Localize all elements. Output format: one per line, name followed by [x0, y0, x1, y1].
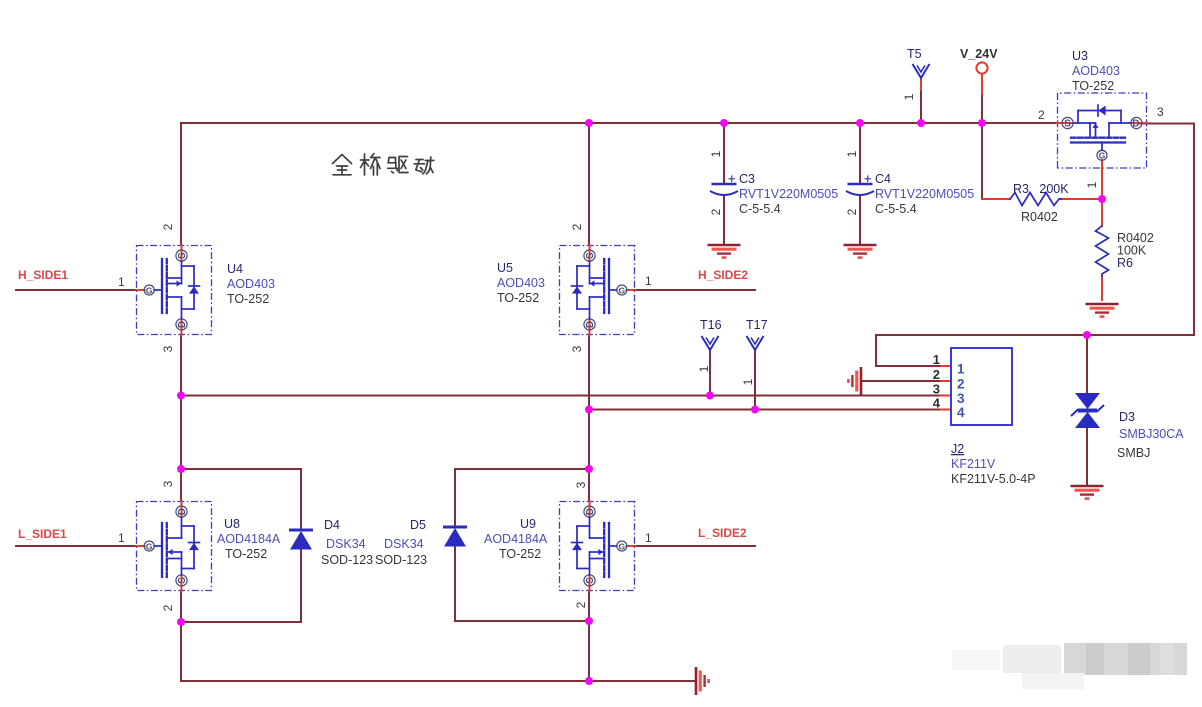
testpoint T17 — [747, 336, 764, 350]
svg-text:D3: D3 — [1119, 410, 1135, 424]
ground bottom rail — [695, 667, 698, 695]
svg-text:G: G — [618, 542, 625, 552]
svg-text:3: 3 — [1157, 105, 1164, 119]
wire V_24V feed down to R3 — [981, 74, 983, 96]
capacitor C3 — [712, 183, 737, 185]
wire D3 stubs — [1086, 335, 1088, 486]
svg-text:2: 2 — [933, 367, 940, 382]
wire net H-bridge left midpoint to J2 pin 3 — [181, 395, 951, 397]
svg-text:2: 2 — [574, 601, 588, 608]
wire left column x=181 — [180, 123, 182, 681]
svg-text:1: 1 — [957, 362, 965, 377]
svg-text:D: D — [1132, 119, 1139, 130]
svg-text:D: D — [585, 508, 596, 515]
wire T16 stub — [709, 350, 711, 396]
svg-text:D: D — [177, 321, 188, 328]
svg-text:AOD403: AOD403 — [497, 276, 545, 290]
svg-text:U8: U8 — [224, 517, 240, 531]
junction U5 drain at top bus — [585, 119, 593, 127]
svg-text:D4: D4 — [324, 518, 340, 532]
svg-text:+: + — [864, 172, 871, 186]
junction C4 at top bus — [856, 119, 864, 127]
svg-text:1: 1 — [845, 150, 859, 157]
junction D5 bottom — [585, 617, 593, 625]
transistor U3 — [1057, 93, 1147, 169]
svg-text:1: 1 — [1085, 181, 1099, 188]
svg-text:1: 1 — [645, 531, 652, 545]
junction T17 on net — [751, 406, 759, 414]
wire U3 gate stub — [1101, 169, 1103, 200]
svg-text:L_SIDE1: L_SIDE1 — [18, 527, 67, 541]
svg-text:S: S — [585, 252, 596, 259]
resistor R3 — [1010, 193, 1061, 206]
wire port H_SIDE1 — [16, 289, 136, 291]
svg-text:AOD403: AOD403 — [1072, 64, 1120, 78]
svg-text:3: 3 — [161, 480, 175, 487]
transistor U9 — [560, 501, 636, 591]
wire net H-bridge right midpoint to J2 pin 4 — [589, 409, 951, 411]
svg-text:C-5-5.4: C-5-5.4 — [739, 202, 781, 216]
svg-text:D: D — [177, 508, 188, 515]
svg-text:SOD-123: SOD-123 — [375, 553, 427, 567]
ground C4 — [844, 244, 877, 247]
ground D3 — [1071, 485, 1104, 488]
svg-text:S: S — [585, 577, 596, 584]
svg-text:AOD4184A: AOD4184A — [217, 532, 281, 546]
svg-text:R0402: R0402 — [1021, 210, 1058, 224]
testpoint T5 — [913, 64, 930, 78]
svg-text:C3: C3 — [739, 172, 755, 186]
svg-text:1: 1 — [933, 352, 940, 367]
svg-text:J2: J2 — [951, 442, 964, 456]
wire C3 stubs — [723, 123, 725, 245]
svg-text:D5: D5 — [410, 518, 426, 532]
junction D3 tap — [1083, 331, 1091, 339]
transistor U8 — [136, 501, 212, 591]
wire R6 stubs — [1101, 199, 1103, 300]
svg-text:SMBJ: SMBJ — [1117, 446, 1150, 460]
wire R3 to U3 gate node — [1061, 198, 1102, 200]
svg-text:3: 3 — [957, 391, 965, 406]
svg-text:4: 4 — [933, 396, 941, 411]
junction D4 bottom — [177, 618, 185, 626]
junction C3 at top bus — [720, 119, 728, 127]
svg-text:G: G — [618, 286, 625, 296]
svg-text:G: G — [1099, 150, 1106, 160]
svg-text:U5: U5 — [497, 261, 513, 275]
svg-text:TO-252: TO-252 — [499, 547, 541, 561]
wire port H_SIDE2 — [635, 289, 755, 291]
wire T5 stub — [920, 78, 922, 92]
svg-text:1: 1 — [709, 150, 723, 157]
svg-text:2: 2 — [570, 223, 584, 230]
wire mid column x=589 — [588, 123, 590, 681]
svg-text:L_SIDE2: L_SIDE2 — [698, 526, 747, 540]
junction left midpoint net — [177, 392, 185, 400]
svg-text:RVT1V220M0505: RVT1V220M0505 — [875, 187, 974, 201]
svg-text:1: 1 — [645, 274, 652, 288]
ground R6 — [1086, 303, 1119, 306]
svg-text:G: G — [146, 542, 153, 552]
wire port L_SIDE1 — [16, 545, 136, 547]
diode D3 TVS — [1075, 393, 1100, 409]
svg-text:RVT1V220M0505: RVT1V220M0505 — [739, 187, 838, 201]
svg-text:TO-252: TO-252 — [225, 547, 267, 561]
capacitor C4 — [848, 183, 873, 185]
junction R3 R6 U3 gate — [1098, 195, 1106, 203]
svg-text:4: 4 — [957, 405, 965, 420]
junction D5 top — [585, 465, 593, 473]
svg-text:2: 2 — [1038, 108, 1045, 122]
wire U3 drain to right edge and down to J2 rail — [876, 124, 1194, 367]
svg-text:TO-252: TO-252 — [227, 292, 269, 306]
diode D5 — [443, 526, 467, 529]
watermark blur — [952, 643, 1187, 689]
svg-text:2: 2 — [161, 223, 175, 230]
wire C4 stubs — [859, 123, 861, 245]
svg-text:1: 1 — [118, 531, 125, 545]
svg-text:3: 3 — [933, 382, 940, 397]
junction T5 at top bus — [917, 119, 925, 127]
svg-text:2: 2 — [957, 377, 965, 392]
svg-text:KF211V-5.0-4P: KF211V-5.0-4P — [951, 472, 1036, 486]
svg-text:C-5-5.4: C-5-5.4 — [875, 202, 917, 216]
diode D4 — [289, 529, 313, 532]
wire D4 parallel branch — [181, 469, 301, 530]
svg-text:V_24V: V_24V — [960, 47, 998, 61]
svg-text:G: G — [146, 286, 153, 296]
svg-text:SOD-123: SOD-123 — [321, 553, 373, 567]
svg-text:S: S — [1064, 119, 1071, 130]
svg-text:2: 2 — [845, 208, 859, 215]
svg-text:AOD4184A: AOD4184A — [484, 532, 548, 546]
ground C3 — [708, 244, 741, 247]
svg-text:1: 1 — [697, 365, 711, 372]
connector J2 — [951, 348, 1012, 425]
svg-text:U3: U3 — [1072, 49, 1088, 63]
wire J2 red pin stubs — [941, 366, 951, 410]
junction right midpoint net — [585, 406, 593, 414]
resistor R6 — [1096, 226, 1109, 276]
svg-text:1: 1 — [902, 93, 916, 100]
svg-text:1: 1 — [118, 275, 125, 289]
ground J2 pin2 — [860, 367, 863, 395]
svg-text:DSK34: DSK34 — [326, 537, 366, 551]
svg-text:U4: U4 — [227, 262, 243, 276]
svg-text:DSK34: DSK34 — [384, 537, 424, 551]
junction V_24V at top bus — [978, 119, 986, 127]
svg-text:U9: U9 — [520, 517, 536, 531]
svg-text:3: 3 — [570, 345, 584, 352]
svg-text:S: S — [177, 577, 188, 584]
transistor U4 — [136, 245, 212, 335]
transistor U5 — [560, 245, 636, 335]
wire top bus V_24V rail — [181, 122, 1064, 124]
svg-text:2: 2 — [161, 604, 175, 611]
junction bottom rail — [585, 677, 593, 685]
wire bottom rail to ground — [181, 680, 695, 682]
wire T17 stub — [754, 350, 756, 410]
svg-text:C4: C4 — [875, 172, 891, 186]
svg-text:TO-252: TO-252 — [497, 291, 539, 305]
svg-text:2: 2 — [709, 208, 723, 215]
power port V_24V — [976, 62, 987, 73]
svg-text:SMBJ30CA: SMBJ30CA — [1119, 427, 1184, 441]
svg-text:R3 200K: R3 200K — [1013, 182, 1069, 196]
svg-text:+: + — [728, 172, 735, 186]
svg-text:3: 3 — [161, 345, 175, 352]
svg-text:R6: R6 — [1117, 256, 1133, 270]
svg-text:KF211V: KF211V — [951, 457, 996, 471]
junction D4 top — [177, 465, 185, 473]
junction T16 on net — [706, 392, 714, 400]
wire J2 pin2 to ground — [862, 380, 951, 382]
svg-text:1: 1 — [741, 378, 755, 385]
wire port L_SIDE2 — [635, 545, 755, 547]
svg-text:3: 3 — [574, 481, 588, 488]
svg-text:AOD403: AOD403 — [227, 277, 275, 291]
svg-text:T16: T16 — [700, 318, 722, 332]
svg-text:H_SIDE1: H_SIDE1 — [18, 268, 68, 282]
svg-text:S: S — [177, 252, 188, 259]
svg-text:T17: T17 — [746, 318, 768, 332]
svg-text:D: D — [585, 321, 596, 328]
svg-text:TO-252: TO-252 — [1072, 79, 1114, 93]
svg-text:H_SIDE2: H_SIDE2 — [698, 268, 748, 282]
testpoint T16 — [702, 336, 719, 350]
svg-text:T5: T5 — [907, 47, 922, 61]
title 全桥驱动 — [333, 154, 434, 176]
wire D5 parallel branch — [455, 469, 589, 527]
